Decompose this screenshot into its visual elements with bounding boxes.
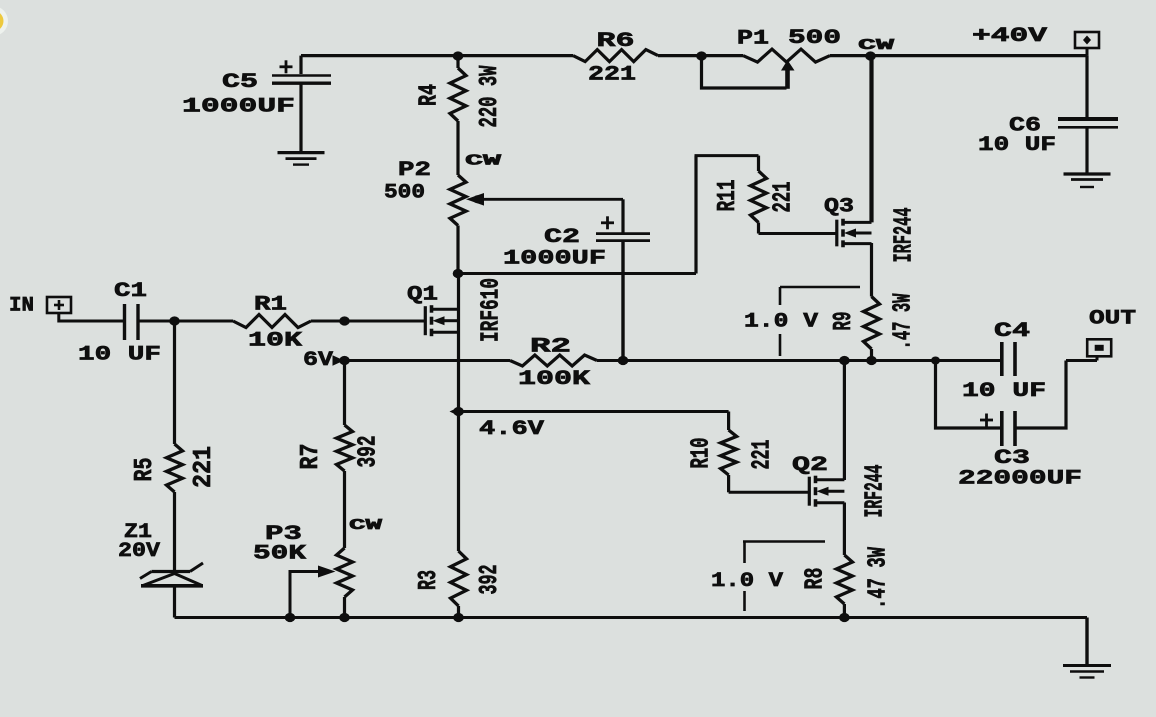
- svg-text:R11: R11: [712, 180, 742, 212]
- wire 6V node down to R7: [343, 361, 346, 426]
- svg-text:20V: 20V: [118, 540, 160, 563]
- svg-text:1000UF: 1000UF: [503, 248, 606, 271]
- svg-text:R8: R8: [800, 568, 830, 590]
- svg-text:1.0 V: 1.0 V: [711, 570, 783, 593]
- transistor Q2 IRF244: [808, 491, 811, 494]
- wire P3 wiper down to bottom rail: [290, 572, 322, 618]
- svg-text:10 UF: 10 UF: [978, 134, 1056, 157]
- junction dot R2 right / C2 line: [618, 356, 629, 365]
- svg-text:220 3W: 220 3W: [474, 65, 504, 127]
- ground bottom right: [1063, 664, 1111, 667]
- wire Q1 source down to R3: [457, 310, 460, 551]
- svg-text:IN: IN: [9, 295, 34, 318]
- resistor R1: [175, 320, 234, 323]
- capacitor C2: [621, 199, 624, 232]
- svg-text:R3: R3: [413, 570, 443, 590]
- junction dot C1-R1-R5: [169, 316, 180, 325]
- junction dot R9 bottom at rail: [866, 356, 877, 365]
- zener diode Z1: [152, 570, 191, 573]
- svg-text:IRF244: IRF244: [889, 208, 919, 263]
- ground below C5: [278, 151, 325, 154]
- 1.0V measurement bracket Q2: [743, 540, 825, 543]
- potentiometer P3: [337, 548, 353, 597]
- yellow bullet at left edge: [0, 6, 8, 36]
- wire rail to OUT terminal: [1066, 359, 1097, 362]
- junction dot R7/P3 bottom: [339, 613, 350, 622]
- svg-text:Q1: Q1: [407, 284, 438, 307]
- wire Q2 source to R8: [843, 503, 846, 556]
- svg-text:392: 392: [474, 565, 504, 595]
- resistor R10: [721, 430, 737, 475]
- P1 wiper arrow: [781, 60, 795, 71]
- svg-text:Q3: Q3: [824, 196, 854, 219]
- svg-text:221: 221: [768, 182, 798, 213]
- svg-text:1.0 V: 1.0 V: [744, 311, 818, 334]
- transistor Q1 IRF610: [424, 320, 427, 323]
- svg-text:IRF244: IRF244: [860, 465, 890, 518]
- wire C2 bottom to output rail: [621, 242, 624, 361]
- P1 wiper loop wire: [702, 56, 787, 88]
- svg-text:4.6V: 4.6V: [479, 418, 544, 441]
- svg-text:CW: CW: [858, 37, 894, 54]
- svg-text:R1: R1: [254, 294, 287, 317]
- P2 wiper arrow: [466, 193, 484, 206]
- svg-text:OUT: OUT: [1089, 308, 1136, 331]
- svg-text:R9: R9: [828, 312, 858, 331]
- wire R10 to Q2 gate: [729, 491, 810, 494]
- wire Q1 drain to node: [457, 274, 460, 311]
- wire node P2-bottom to R11 branch: [458, 272, 696, 275]
- svg-text:500: 500: [788, 27, 841, 50]
- svg-text:221: 221: [747, 440, 777, 470]
- svg-text:392: 392: [353, 436, 383, 468]
- 1.0V measurement bracket Q3: [780, 286, 860, 289]
- svg-text:10K: 10K: [248, 330, 302, 353]
- resistor R7: [337, 425, 353, 471]
- capacitor C3: [1000, 411, 1004, 446]
- capacitor C6: [1085, 56, 1088, 117]
- svg-text:10 UF: 10 UF: [78, 344, 161, 367]
- wire bottom rail to ground: [1085, 618, 1088, 666]
- wire left drop C1 node to R5: [173, 321, 176, 444]
- P1 left junction dot: [696, 51, 707, 60]
- capacitor C4: [1000, 342, 1004, 376]
- P3 wiper arrow: [318, 566, 336, 578]
- wire gate node to Q1: [345, 320, 426, 323]
- junction dot R1 right / gate node: [339, 316, 350, 325]
- wire Q2 drain up to output rail: [843, 361, 846, 481]
- junction dot C3 branch left: [931, 357, 940, 365]
- resistor R8: [836, 555, 852, 604]
- junction dot 6V node: [339, 356, 350, 365]
- junction dot R3 bottom: [453, 613, 464, 622]
- 4.6V node arrow: [450, 408, 459, 416]
- svg-text:R6: R6: [597, 30, 635, 53]
- svg-text:500: 500: [384, 182, 425, 205]
- ground below C6: [1064, 172, 1111, 175]
- svg-text:IRF610: IRF610: [476, 278, 506, 342]
- resistor R11: [757, 156, 760, 171]
- svg-text:.47 3W: .47 3W: [888, 293, 918, 349]
- wire P2 wiper to C2: [480, 198, 623, 201]
- svg-text:CW: CW: [349, 517, 382, 534]
- wire C1 to node: [139, 320, 175, 323]
- +40V terminal box: [1075, 32, 1099, 48]
- svg-text:221: 221: [188, 446, 218, 488]
- svg-text:P1: P1: [737, 28, 769, 51]
- svg-text:C5: C5: [222, 71, 258, 94]
- svg-text:C2: C2: [544, 226, 580, 249]
- resistor R6: [573, 50, 658, 62]
- wire IN to C1: [59, 313, 123, 321]
- resistor R3: [451, 551, 467, 606]
- wire R11 to Q3 gate: [759, 232, 837, 235]
- svg-text:C4: C4: [994, 320, 1030, 343]
- svg-text:R7: R7: [295, 444, 325, 470]
- svg-text:10 UF: 10 UF: [962, 380, 1046, 403]
- capacitor C5: [299, 56, 302, 74]
- wire output rail (6V node to OUT): [345, 359, 511, 362]
- svg-text:C1: C1: [114, 280, 147, 303]
- resistor R5: [167, 444, 183, 492]
- node junction R4 top: [453, 51, 464, 60]
- wire bottom ground rail: [175, 616, 1088, 619]
- resistor R4: [456, 56, 459, 68]
- svg-text:R4: R4: [414, 84, 444, 106]
- IN terminal box: [47, 297, 71, 313]
- svg-text:+40V: +40V: [972, 25, 1047, 48]
- junction dot P3 wiper at bottom: [285, 613, 296, 622]
- svg-text:100K: 100K: [518, 368, 590, 391]
- junction dot CW node: [865, 51, 876, 60]
- svg-text:6V: 6V: [303, 349, 333, 372]
- resistor R2: [510, 355, 597, 366]
- capacitor C1: [123, 304, 126, 340]
- svg-text:R10: R10: [686, 438, 716, 469]
- svg-text:1000UF: 1000UF: [182, 96, 295, 119]
- svg-text:221: 221: [588, 63, 636, 86]
- svg-text:50K: 50K: [253, 543, 306, 566]
- OUT terminal box: [1087, 339, 1111, 356]
- transistor Q3 IRF244: [835, 232, 838, 235]
- wire riser to R11: [694, 156, 697, 274]
- svg-text:22000UF: 22000UF: [958, 468, 1082, 491]
- resistor R9: [870, 243, 873, 297]
- wire C3 loop: [936, 361, 1001, 429]
- potentiometer P1: [743, 49, 830, 62]
- junction dot Q2 drain at rail: [839, 356, 850, 365]
- wire Q3 drain up to rail (CW node): [869, 56, 873, 222]
- wire Z1 to bottom rail: [173, 587, 176, 618]
- svg-text:Q2: Q2: [792, 454, 828, 477]
- svg-text:R5: R5: [129, 458, 159, 482]
- junction dot R8 bottom: [839, 613, 850, 622]
- svg-text:R2: R2: [530, 336, 571, 359]
- svg-text:CW: CW: [465, 153, 501, 170]
- wire top rail +40V: [301, 54, 573, 57]
- wire 4.6V node to R10: [459, 410, 729, 413]
- potentiometer P2: [450, 175, 466, 226]
- svg-text:.47 3W: .47 3W: [863, 547, 893, 609]
- svg-text:P2: P2: [398, 159, 431, 182]
